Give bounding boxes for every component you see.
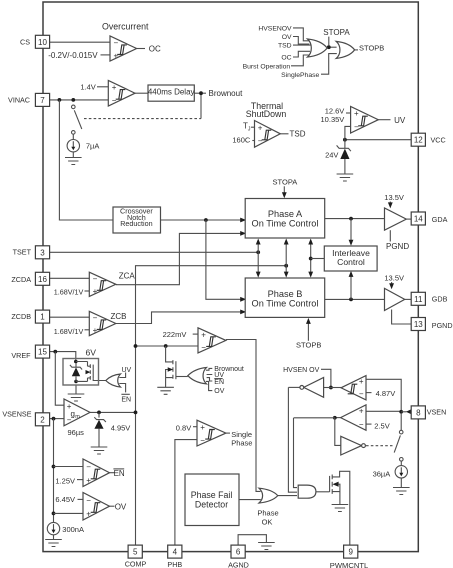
svg-text:TSD: TSD — [278, 42, 292, 49]
svg-text:+: + — [201, 330, 206, 339]
svg-text:m: m — [75, 414, 80, 420]
svg-text:OK: OK — [262, 517, 273, 526]
svg-text:6.45V: 6.45V — [55, 495, 75, 504]
svg-text:Phase: Phase — [231, 438, 252, 447]
svg-text:STOPB: STOPB — [296, 341, 321, 350]
svg-text:g: g — [71, 409, 75, 418]
svg-text:Phase Fail: Phase Fail — [191, 490, 233, 500]
svg-text:−: − — [359, 420, 364, 429]
svg-text:ZCDB: ZCDB — [11, 312, 31, 321]
svg-text:Burst Operation: Burst Operation — [243, 63, 291, 70]
svg-text:ZCDA: ZCDA — [11, 275, 31, 284]
svg-text:VSEN: VSEN — [427, 408, 447, 417]
svg-text:PGND: PGND — [386, 242, 409, 251]
svg-text:10.35V: 10.35V — [321, 115, 345, 124]
svg-text:-0.2V/-0.015V: -0.2V/-0.015V — [48, 51, 98, 60]
svg-text:HVSENOV: HVSENOV — [258, 25, 292, 32]
svg-text:STOPB: STOPB — [359, 43, 384, 52]
svg-text:On Time Control: On Time Control — [252, 218, 319, 228]
svg-text:EN: EN — [121, 396, 131, 403]
svg-text:14: 14 — [414, 215, 423, 224]
svg-text:EN: EN — [214, 379, 224, 386]
svg-text:VCC: VCC — [431, 136, 446, 145]
svg-text:10: 10 — [38, 38, 47, 47]
svg-text:EN: EN — [114, 469, 125, 478]
svg-text:+: + — [200, 423, 205, 432]
svg-text:Overcurrent: Overcurrent — [102, 21, 149, 31]
svg-text:+: + — [258, 123, 263, 132]
svg-text:96µs: 96µs — [68, 428, 85, 437]
svg-text:Detector: Detector — [195, 499, 228, 509]
svg-text:CS: CS — [20, 38, 30, 47]
svg-text:13.5V: 13.5V — [384, 193, 404, 202]
svg-text:PHB: PHB — [167, 560, 182, 568]
svg-text:+: + — [359, 407, 364, 416]
svg-text:OV: OV — [115, 503, 127, 512]
svg-text:TSET: TSET — [13, 247, 32, 256]
svg-text:COMP: COMP — [125, 560, 147, 568]
svg-text:STOPA: STOPA — [323, 28, 350, 37]
svg-text:PGND: PGND — [432, 321, 453, 330]
svg-text:−: − — [112, 96, 117, 105]
svg-text:−: − — [114, 39, 119, 48]
svg-text:VINAC: VINAC — [8, 96, 30, 105]
svg-text:+: + — [86, 510, 91, 519]
svg-text:13: 13 — [414, 320, 423, 329]
svg-text:−: − — [86, 463, 91, 472]
svg-text:+: + — [93, 326, 98, 335]
svg-text:222mV: 222mV — [163, 330, 187, 339]
svg-text:+: + — [112, 83, 117, 92]
svg-text:OC: OC — [149, 45, 161, 54]
svg-text:OV: OV — [214, 388, 224, 395]
svg-text:−: − — [354, 123, 359, 132]
svg-text:J: J — [248, 127, 251, 133]
svg-text:440ms Delay: 440ms Delay — [148, 88, 195, 97]
svg-text:GDB: GDB — [432, 295, 448, 304]
svg-text:ZCB: ZCB — [111, 312, 127, 321]
svg-text:UV: UV — [122, 367, 132, 374]
svg-text:4.95V: 4.95V — [111, 423, 131, 432]
svg-text:1.25V: 1.25V — [55, 477, 75, 486]
svg-text:6: 6 — [236, 548, 241, 557]
svg-text:−: − — [93, 314, 98, 323]
svg-text:+: + — [354, 109, 359, 118]
svg-text:9: 9 — [348, 548, 353, 557]
svg-text:12: 12 — [414, 136, 423, 145]
svg-text:OV: OV — [282, 34, 292, 41]
svg-text:36µA: 36µA — [373, 470, 391, 479]
svg-text:−: − — [359, 390, 364, 399]
svg-text:−: − — [200, 436, 205, 445]
svg-text:Phase: Phase — [257, 509, 278, 518]
svg-text:ShutDown: ShutDown — [246, 109, 287, 119]
svg-text:ZCA: ZCA — [119, 272, 136, 281]
svg-text:On Time Control: On Time Control — [252, 298, 319, 308]
svg-text:5: 5 — [133, 548, 138, 557]
svg-text:16: 16 — [38, 275, 47, 284]
svg-text:HVSEN OV: HVSEN OV — [283, 367, 320, 374]
svg-text:7: 7 — [40, 96, 45, 105]
svg-text:−: − — [258, 137, 263, 146]
svg-text:300nA: 300nA — [62, 525, 84, 534]
svg-text:8: 8 — [416, 408, 421, 417]
svg-text:UV: UV — [394, 116, 406, 125]
svg-text:13.5V: 13.5V — [384, 274, 404, 283]
svg-text:+: + — [359, 377, 364, 386]
svg-text:Brownout: Brownout — [209, 89, 244, 98]
svg-text:2.5V: 2.5V — [374, 422, 389, 431]
svg-text:SinglePhase: SinglePhase — [281, 72, 319, 79]
svg-text:4: 4 — [173, 548, 178, 557]
svg-text:STOPA: STOPA — [273, 177, 298, 186]
svg-text:7µA: 7µA — [86, 142, 100, 151]
svg-text:VREF: VREF — [11, 351, 31, 360]
svg-text:+: + — [93, 287, 98, 296]
svg-text:PWMCNTL: PWMCNTL — [330, 561, 368, 568]
svg-text:AGND: AGND — [228, 560, 249, 568]
svg-text:GDA: GDA — [432, 215, 448, 224]
svg-text:TSD: TSD — [290, 130, 306, 139]
svg-text:+: + — [114, 51, 119, 60]
svg-text:+: + — [86, 476, 91, 485]
svg-text:−: − — [201, 343, 206, 352]
svg-text:Reduction: Reduction — [120, 219, 152, 228]
svg-text:2: 2 — [40, 415, 45, 424]
svg-text:−: − — [93, 275, 98, 284]
svg-text:0.8V: 0.8V — [176, 424, 191, 433]
svg-text:OC: OC — [281, 54, 291, 61]
svg-text:3: 3 — [40, 248, 45, 257]
svg-text:−: − — [86, 496, 91, 505]
svg-text:24V: 24V — [325, 151, 338, 160]
svg-text:1.68V/1V: 1.68V/1V — [54, 288, 84, 297]
svg-text:6V: 6V — [86, 347, 97, 357]
svg-text:1: 1 — [40, 313, 45, 322]
svg-text:160C: 160C — [232, 135, 251, 144]
svg-text:1.68V/1V: 1.68V/1V — [54, 327, 84, 336]
svg-text:Control: Control — [337, 257, 365, 267]
svg-text:4.87V: 4.87V — [376, 389, 396, 398]
svg-text:1.4V: 1.4V — [80, 82, 95, 91]
svg-text:VSENSE: VSENSE — [2, 410, 31, 419]
svg-text:15: 15 — [38, 348, 47, 357]
svg-text:11: 11 — [414, 295, 423, 304]
